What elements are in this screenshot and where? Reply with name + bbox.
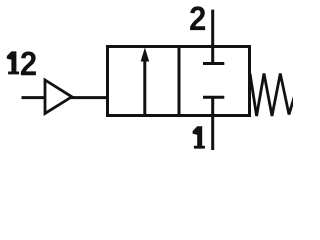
spring return: [250, 74, 295, 117]
position divider: [178, 47, 181, 116]
label 12 digit 2: [21, 51, 36, 75]
flow arrowhead: [141, 48, 150, 62]
port 2 seat crossbar: [203, 62, 224, 65]
label 12 digit 1: [7, 51, 19, 74]
valve body V1: [108, 47, 250, 116]
port 1 line: [211, 97, 214, 150]
pilot line left stub: [22, 96, 46, 99]
label 1: [193, 126, 205, 148]
port 2 line: [211, 10, 214, 64]
flow arrow shaft: [143, 59, 146, 116]
port 1 seat crossbar: [203, 96, 224, 99]
label 2: [190, 6, 205, 30]
pilot actuator triangle: [45, 80, 72, 114]
wire pilot to body: [71, 96, 108, 99]
